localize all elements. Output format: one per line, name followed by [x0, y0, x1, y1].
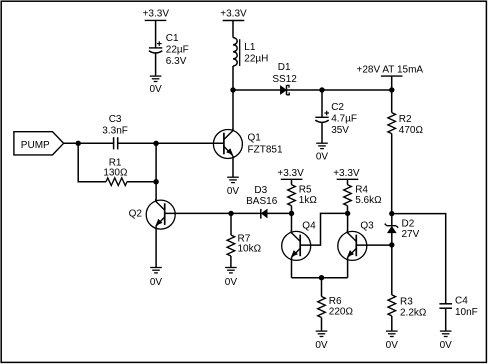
- svg-text:R2: R2: [399, 114, 412, 125]
- svg-text:L1: L1: [244, 42, 256, 53]
- svg-text:C4: C4: [455, 295, 468, 306]
- svg-text:220Ω: 220Ω: [329, 306, 354, 317]
- wire: [347, 206, 349, 214]
- wire Q4 base route: [300, 213, 347, 245]
- label D1: [272, 62, 297, 85]
- node D2/Q3 base/R3 junction: [389, 242, 394, 247]
- ground (C1): [149, 76, 162, 95]
- wire: [391, 245, 393, 295]
- label Q3: [360, 221, 374, 232]
- svg-text:2.2kΩ: 2.2kΩ: [400, 308, 427, 319]
- resistor R2: [388, 113, 396, 134]
- wire: [232, 156, 234, 177]
- label R6 value: [329, 296, 354, 318]
- svg-text:Q3: Q3: [360, 221, 374, 232]
- wire: [155, 53, 157, 77]
- svg-text:130Ω: 130Ω: [103, 168, 128, 179]
- wire: [347, 179, 349, 184]
- svg-text:C1: C1: [166, 33, 179, 44]
- resistor R7: [227, 235, 235, 256]
- wire: [391, 214, 393, 226]
- label Q1: [248, 133, 283, 156]
- svg-text:3.3nF: 3.3nF: [102, 126, 128, 137]
- wire: [291, 179, 293, 184]
- transistor Q2: [146, 199, 175, 229]
- label Q2: [129, 208, 143, 219]
- wire: [232, 90, 234, 131]
- node C2 junction: [319, 87, 324, 92]
- svg-text:+3.3V: +3.3V: [220, 9, 247, 20]
- svg-text:R3: R3: [400, 297, 413, 308]
- label C4 value: [455, 295, 478, 318]
- capacitor C2: [315, 111, 329, 123]
- ground (R6): [315, 331, 328, 351]
- node Q2 base/R7/D3 junction: [228, 211, 233, 216]
- svg-text:4.7µF: 4.7µF: [331, 114, 357, 125]
- svg-text:+28V AT 15mA: +28V AT 15mA: [356, 65, 423, 76]
- wire: [232, 66, 234, 90]
- label R7 value: [238, 233, 262, 254]
- label L1 value: [244, 42, 268, 65]
- power rail +3.3V (L1): [220, 9, 247, 21]
- wire: [291, 258, 293, 278]
- label C3 value: [102, 114, 128, 136]
- label D2: [402, 219, 420, 241]
- svg-text:+3.3V: +3.3V: [277, 168, 304, 179]
- svg-text:10nF: 10nF: [455, 307, 478, 318]
- svg-text:C2: C2: [331, 102, 344, 113]
- wire: [391, 90, 393, 113]
- inductor L1: [233, 38, 240, 66]
- wire: [391, 233, 393, 245]
- label C1 value: [166, 33, 189, 67]
- svg-text:0V: 0V: [316, 152, 329, 163]
- svg-text:+3.3V: +3.3V: [333, 168, 360, 179]
- ground (R7): [225, 268, 238, 288]
- resistor R5: [288, 185, 296, 206]
- node R5/D3/Q4 junction: [289, 211, 294, 216]
- wire: [391, 76, 393, 90]
- svg-text:0V: 0V: [386, 340, 399, 351]
- diode D2 (zener): [385, 224, 399, 233]
- label R1 value: [103, 157, 128, 178]
- label R5 value: [299, 185, 318, 206]
- transistor Q4: [282, 230, 311, 260]
- wire: [155, 20, 157, 48]
- svg-text:22µH: 22µH: [244, 53, 268, 64]
- wire: [356, 244, 392, 246]
- wire: [230, 256, 232, 268]
- resistor R1: [106, 178, 127, 186]
- ground (C4): [440, 331, 453, 351]
- diode D3: [261, 209, 267, 219]
- wire: [232, 21, 234, 38]
- wire: [291, 206, 293, 214]
- wire: [291, 213, 293, 231]
- svg-text:Q1: Q1: [248, 133, 262, 144]
- svg-text:470Ω: 470Ω: [399, 125, 424, 136]
- svg-text:0V: 0V: [225, 277, 238, 288]
- transistor Q1: [213, 129, 242, 159]
- node R2/D2/C4 junction: [389, 211, 394, 216]
- wire: [267, 212, 291, 214]
- svg-text:C3: C3: [109, 114, 122, 125]
- label D3: [246, 185, 278, 207]
- wire: [233, 89, 280, 91]
- node R4/Q3/Q4 base junction: [345, 211, 350, 216]
- wire: [155, 143, 157, 201]
- svg-text:D3: D3: [254, 185, 267, 196]
- svg-text:Q2: Q2: [129, 208, 143, 219]
- node R6 junction: [319, 275, 324, 280]
- power rail +3.3V (R4): [333, 168, 360, 179]
- svg-text:35V: 35V: [331, 125, 349, 136]
- node R1/Q2 junction: [153, 179, 158, 184]
- wire: [321, 122, 323, 143]
- wire: [165, 212, 261, 214]
- resistor R4: [344, 185, 352, 206]
- wire: [118, 142, 224, 144]
- wire: [347, 213, 349, 231]
- wire: [347, 258, 349, 278]
- svg-text:BAS16: BAS16: [246, 196, 278, 207]
- wire: [321, 318, 323, 332]
- wire: [321, 278, 323, 297]
- svg-text:PUMP: PUMP: [21, 140, 50, 151]
- wire: [392, 214, 446, 304]
- svg-text:Q4: Q4: [302, 221, 316, 232]
- label R4 value: [355, 185, 382, 206]
- svg-text:R1: R1: [109, 157, 122, 168]
- node L1/D1/Q1 junction: [230, 87, 235, 92]
- label C2 value: [331, 102, 357, 136]
- svg-text:10kΩ: 10kΩ: [238, 244, 262, 255]
- wire: [155, 226, 157, 267]
- wire: [64, 142, 114, 144]
- ground (R3): [386, 331, 399, 351]
- diode D1 (schottky): [280, 85, 289, 95]
- svg-text:R6: R6: [329, 296, 342, 307]
- resistor R3: [388, 295, 396, 316]
- svg-text:27V: 27V: [402, 229, 420, 240]
- transistor Q3: [338, 230, 367, 260]
- wire: [127, 181, 156, 183]
- svg-text:22µF: 22µF: [166, 45, 189, 56]
- svg-text:0V: 0V: [149, 84, 162, 95]
- node C3/R1/Q1 base junction: [153, 141, 158, 146]
- wire: [391, 134, 393, 214]
- svg-text:D2: D2: [402, 219, 415, 230]
- ground (Q1 emitter): [227, 177, 240, 197]
- ground (C2): [316, 143, 329, 162]
- ground (Q2 emitter): [150, 268, 163, 288]
- svg-text:6.3V: 6.3V: [166, 56, 187, 67]
- wire: [230, 213, 232, 235]
- svg-text:+3.3V: +3.3V: [143, 9, 170, 20]
- svg-text:0V: 0V: [440, 340, 453, 351]
- svg-text:1kΩ: 1kΩ: [299, 195, 318, 206]
- power rail +3.3V (C1): [143, 9, 170, 21]
- label R2 value: [399, 114, 424, 136]
- wire: [391, 316, 393, 331]
- connector PUMP: [14, 132, 64, 155]
- wire: [78, 143, 106, 181]
- svg-text:5.6kΩ: 5.6kΩ: [355, 195, 382, 206]
- node +28V junction: [389, 87, 394, 92]
- svg-text:0V: 0V: [150, 277, 163, 288]
- capacitor C3: [114, 137, 118, 149]
- capacitor C1: [149, 41, 162, 53]
- wire: [287, 89, 392, 91]
- power rail +3.3V (R5): [277, 168, 304, 179]
- resistor R6: [318, 297, 326, 318]
- label R3 value: [400, 297, 427, 319]
- svg-text:D1: D1: [278, 62, 291, 73]
- wire: [445, 308, 447, 331]
- node PUMP junction: [76, 141, 81, 146]
- label Q4: [302, 221, 316, 232]
- svg-text:0V: 0V: [227, 186, 240, 197]
- capacitor C4: [439, 304, 452, 308]
- svg-text:0V: 0V: [315, 340, 328, 351]
- wire: [321, 90, 323, 117]
- svg-text:FZT851: FZT851: [248, 144, 283, 155]
- svg-text:SS12: SS12: [272, 74, 297, 85]
- power rail +28V AT 15mA: [356, 65, 423, 77]
- wire: [292, 277, 348, 279]
